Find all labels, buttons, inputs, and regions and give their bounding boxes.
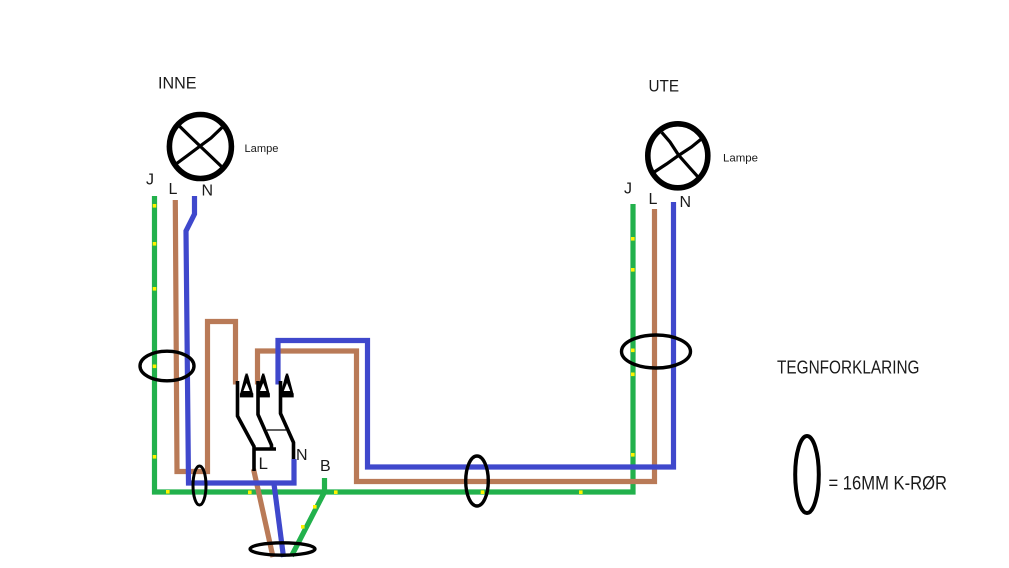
wire J green: INNE drop, bottom run, UTE rise — [155, 196, 634, 492]
svg-text:J: J — [624, 181, 632, 198]
lamp UTE cross — [662, 132, 700, 179]
svg-text:INNE: INNE — [158, 74, 197, 92]
lamp INNE cross — [177, 124, 223, 168]
svg-text:N: N — [680, 194, 692, 211]
wire N blue: INNE drop to bottom, to switch N terminal — [186, 196, 294, 483]
node B green stub — [322, 478, 327, 494]
switch pole 3 contact line — [281, 381, 294, 459]
svg-text:L: L — [649, 191, 658, 208]
svg-text:N: N — [296, 447, 308, 464]
wire blue diagonal to conduit — [274, 484, 284, 557]
svg-text:L: L — [169, 181, 178, 198]
switch pole 1 contact line — [238, 381, 255, 471]
svg-text:Lampe: Lampe — [723, 153, 758, 165]
lamp UTE circle — [648, 124, 708, 188]
switch terminal triangle 2 — [257, 374, 270, 398]
switch terminal triangle 1 — [240, 374, 253, 398]
svg-text:Lampe: Lampe — [245, 143, 279, 155]
legend conduit ellipse — [795, 436, 819, 513]
svg-text:= 16MM K-RØR: = 16MM K-RØR — [829, 474, 948, 495]
conduit ellipse right — [622, 335, 691, 368]
svg-text:J: J — [146, 172, 154, 189]
lamp INNE circle — [169, 115, 231, 179]
switch bottom bar (L terminal) — [253, 447, 277, 451]
wire brown: switch pole 2 to UTE lamp L — [258, 209, 655, 482]
conduit ellipse bottom horizontal — [250, 543, 315, 555]
yellow marks on green wires — [153, 204, 635, 529]
switch pole 2 contact line — [258, 381, 272, 449]
conduit ellipse small vertical — [193, 466, 206, 505]
svg-text:L: L — [259, 454, 268, 473]
switch link thin line — [267, 429, 286, 431]
wire blue: switch pole 3 feed to UTE lamp N — [278, 202, 674, 467]
svg-text:TEGNFORKLARING: TEGNFORKLARING — [777, 358, 920, 378]
conduit ellipse left (K-ROR) — [140, 351, 194, 381]
wire brown diagonal from L terminal to conduit — [254, 469, 274, 557]
wire L brown: INNE drop, U-turn up to switch pole 1 — [175, 200, 235, 472]
conduit ellipse mid-bottom vertical — [466, 456, 489, 506]
wire green diagonal to conduit — [292, 492, 325, 556]
svg-text:N: N — [202, 183, 214, 200]
svg-text:B: B — [320, 458, 331, 475]
switch terminal triangle 3 — [280, 374, 293, 398]
svg-text:UTE: UTE — [649, 78, 680, 96]
